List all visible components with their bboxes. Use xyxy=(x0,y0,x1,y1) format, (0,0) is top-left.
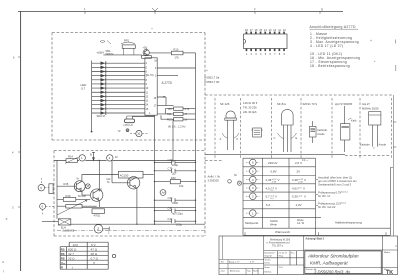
svg-text:3: 3 xyxy=(255,52,257,56)
bottom left corner marks xyxy=(2,260,4,273)
resistor R20 470 xyxy=(92,209,105,214)
svg-text:V: V xyxy=(304,178,306,182)
svg-text:C41: C41 xyxy=(168,206,173,210)
svg-text:T40: T40 xyxy=(98,188,103,192)
svg-text:6: 6 xyxy=(269,52,271,56)
component strip dashed top xyxy=(205,94,392,96)
svg-text:Gerätanschluß zum 2 und 3: Gerätanschluß zum 2 und 3 xyxy=(318,182,352,186)
svg-text:-0,3: -0,3 xyxy=(270,198,274,200)
svg-text:4: 4 xyxy=(260,52,262,56)
resonator B1 470Hz xyxy=(125,116,155,123)
svg-text:R19: R19 xyxy=(66,194,71,198)
svg-text:3300: 3300 xyxy=(172,201,178,205)
input B arrow xyxy=(92,152,95,160)
wires resistor stack to rails xyxy=(157,109,195,120)
svg-text:0,7 Ω: 0,7 Ω xyxy=(91,257,99,261)
svg-text:3 053200: 3 053200 xyxy=(208,178,220,182)
svg-text:+0,2: +0,2 xyxy=(298,196,303,198)
svg-text:+1/-0,5: +1/-0,5 xyxy=(340,203,346,205)
svg-text:11: 11 xyxy=(278,28,281,32)
svg-text:7: 7 xyxy=(274,52,276,56)
svg-text:2: 2 xyxy=(108,231,110,234)
svg-text:2µ7: 2µ7 xyxy=(172,172,177,176)
svg-text:2: 2 xyxy=(252,195,254,199)
svg-text:0,8V: 0,8V xyxy=(271,170,277,174)
svg-text:Kathode: Kathode xyxy=(317,128,327,132)
svg-text:R9: R9 xyxy=(168,107,172,111)
svg-text:K: K xyxy=(237,137,239,141)
svg-text:C: C xyxy=(274,136,276,140)
svg-text:-0,08: -0,08 xyxy=(298,181,303,183)
svg-text:11: 11 xyxy=(146,91,149,94)
title area lines xyxy=(304,250,398,268)
resistor stack labels xyxy=(167,107,190,122)
svg-text:Wag: Wag xyxy=(279,256,284,258)
svg-text:1: 1 xyxy=(246,52,248,56)
potentiometer RP1 xyxy=(121,42,135,55)
svg-text:2,6 V: 2,6 V xyxy=(295,161,302,165)
svg-text:2V: 2V xyxy=(297,170,301,174)
svg-text:11.4: 11.4 xyxy=(279,267,284,269)
svg-text:für Vbr. G2-U2: für Vbr. G2-U2 xyxy=(318,205,336,209)
package body xyxy=(244,34,288,49)
wire +5V rail xyxy=(103,54,141,56)
svg-text:Nr.: Nr. xyxy=(234,173,238,177)
relay box AC150 xyxy=(119,171,144,178)
svg-text:Aufkl. I. Nr.: Aufkl. I. Nr. xyxy=(208,175,221,179)
svg-text:8: 8 xyxy=(146,79,148,82)
svg-text:Ausg. 1.77: Ausg. 1.77 xyxy=(229,260,240,263)
svg-text:+0,3: +0,3 xyxy=(298,187,303,189)
svg-text:R15: R15 xyxy=(64,182,69,186)
svg-text:3: 3 xyxy=(12,206,14,210)
svg-text:Techn.: Techn. xyxy=(265,260,272,262)
svg-text:4µ7(10µ): 4µ7(10µ) xyxy=(172,212,183,216)
svg-text:3: 3 xyxy=(155,67,157,70)
wire bottom stub left xyxy=(42,220,58,222)
lower schematic dashed enclosure xyxy=(54,151,205,236)
dashes at circle sides xyxy=(246,163,259,214)
svg-text:C33: C33 xyxy=(168,196,173,200)
wire IC right pin y105.4 xyxy=(157,97,173,105)
package pin numbers xyxy=(245,28,286,56)
svg-text:Anschlußbelegung A277D: Anschlußbelegung A277D xyxy=(310,25,356,29)
svg-text:1: 1 xyxy=(84,7,86,11)
svg-text:4 0593,7 00: 4 0593,7 00 xyxy=(204,80,220,84)
svg-text:28 Ω: 28 Ω xyxy=(91,252,98,256)
wire bottom rail y224.2 xyxy=(71,223,205,225)
svg-text:18 - Betriebsspannung: 18 - Betriebsspannung xyxy=(310,64,350,68)
svg-text:für Vbr. Ut: für Vbr. Ut xyxy=(318,194,330,198)
svg-text:+(8)V: +(8)V xyxy=(97,51,106,55)
svg-text:4.77: 4.77 xyxy=(250,261,255,263)
svg-text:15: 15 xyxy=(259,28,262,32)
annotation block right edge xyxy=(389,168,391,236)
svg-text:10k: 10k xyxy=(179,184,184,188)
svg-text:E: E xyxy=(296,136,298,140)
svg-text:Geprüft: Geprüft xyxy=(265,255,273,258)
svg-text:Kathode: Kathode xyxy=(360,142,370,146)
svg-text:47 Ω: 47 Ω xyxy=(91,248,98,252)
handwriting mark top xyxy=(100,40,111,44)
frame top tick x255 xyxy=(254,11,256,14)
title block verticals xyxy=(264,236,383,275)
LED bus wire xyxy=(91,61,93,132)
diode SZX21 outline xyxy=(309,121,316,143)
svg-text:SC308: SC308 xyxy=(78,194,86,198)
svg-text:R40: R40 xyxy=(171,176,176,180)
svg-text:1,0V: 1,0V xyxy=(296,203,302,207)
svg-text:-0,2: -0,2 xyxy=(270,190,274,192)
wire x173 gap crossing xyxy=(172,119,174,162)
svg-text:Kontr.: Kontr. xyxy=(265,262,271,265)
frame right tick y122 xyxy=(393,121,396,123)
frame left tick y152 xyxy=(18,151,21,153)
svg-text:6: 6 xyxy=(252,161,254,165)
svg-text:A: A xyxy=(220,137,222,141)
frame left tick y57 xyxy=(18,56,21,58)
capacitor C39 row xyxy=(155,160,196,164)
resistor R19 xyxy=(63,198,76,202)
svg-text:R14: R14 xyxy=(68,155,73,159)
node lamp cross xyxy=(85,184,90,189)
leader marks to annotations xyxy=(316,180,318,206)
svg-text:+: + xyxy=(374,59,376,63)
svg-text:17: 17 xyxy=(250,28,253,32)
meter node circled M xyxy=(160,190,166,196)
IC package drawing A277D DIP-18 xyxy=(244,32,288,51)
svg-text:Bearbeitet: Bearbeitet xyxy=(265,251,275,254)
transistor T1 xyxy=(74,181,85,192)
package bottom pins xyxy=(246,49,285,52)
svg-text:Soll/Ist: Soll/Ist xyxy=(270,219,278,223)
svg-text:AC150: AC150 xyxy=(120,174,129,178)
svg-text:V: V xyxy=(275,186,277,190)
strip labels xyxy=(220,101,387,162)
node circle right of table xyxy=(112,254,115,257)
svg-text:13 —: 13 — xyxy=(302,158,309,162)
oscillator node circled 4 xyxy=(130,131,148,137)
svg-text:Werte: Werte xyxy=(270,222,277,226)
wire T2 emitter down xyxy=(98,201,100,208)
title block outer xyxy=(219,236,398,275)
package notch pin1 mark xyxy=(244,39,246,43)
svg-text:6: 6 xyxy=(13,56,15,60)
svg-text:Anode: Anode xyxy=(317,132,325,136)
svg-text:R11: R11 xyxy=(167,112,172,116)
capacitor C41 row xyxy=(155,209,196,213)
frame right partial border xyxy=(392,95,394,236)
right edge stray marks xyxy=(395,40,397,72)
svg-text:100µ: 100µ xyxy=(172,163,178,167)
transistor T2 SC308 xyxy=(91,189,103,201)
svg-text:14: 14 xyxy=(264,28,267,32)
wire R8 to right rail xyxy=(183,52,196,54)
junction dots xyxy=(99,160,197,225)
svg-text:B1: B1 xyxy=(221,261,224,263)
svg-text:2: 2 xyxy=(155,75,157,78)
capacitor C43 row xyxy=(155,219,196,223)
svg-text:Kru: Kru xyxy=(291,251,295,254)
svg-text:TK: TK xyxy=(386,270,393,276)
node small plus circle xyxy=(126,129,129,132)
svg-text:KMR, Aufbaugerät: KMR, Aufbaugerät xyxy=(310,261,348,266)
svg-text:+5V: +5V xyxy=(143,46,148,50)
svg-text:2: 2 xyxy=(254,7,256,11)
shared dashed vertical x205 xyxy=(204,33,206,236)
wire IC right pin y68 xyxy=(157,67,195,69)
package top pins xyxy=(246,32,285,34)
svg-text:13: 13 xyxy=(269,28,272,32)
svg-text:16: 16 xyxy=(255,28,258,32)
resistor R9 4,7k xyxy=(174,107,183,110)
frame top tick x155 xyxy=(152,8,158,14)
svg-text:C43: C43 xyxy=(168,217,173,221)
svg-text:R6: R6 xyxy=(61,252,65,256)
annotation block xyxy=(318,175,362,224)
svg-text:13: 13 xyxy=(146,100,149,103)
wire VT1 to R8 xyxy=(149,52,171,54)
table header box xyxy=(69,242,108,247)
upper schematic dashed enclosure xyxy=(52,33,205,140)
svg-text:10: 10 xyxy=(283,28,286,32)
svg-text:(D-70): (D-70) xyxy=(146,73,153,77)
frame top border xyxy=(18,10,343,12)
voltage table xyxy=(228,158,394,235)
terminal circled 6 xyxy=(40,203,54,215)
wire trimmer row xyxy=(57,205,97,207)
svg-text:1: 1 xyxy=(149,112,151,115)
lower schematic texts xyxy=(40,153,184,235)
upper schematic small texts xyxy=(81,39,220,134)
wire y207.3 xyxy=(82,206,196,208)
svg-text:≈470 Hz: ≈470 Hz xyxy=(123,123,134,127)
svg-text:17k: 17k xyxy=(175,56,180,60)
scan specks xyxy=(6,28,397,247)
svg-text:3: 3 xyxy=(252,186,254,190)
svg-text:gen von 2780V 4 zusammen am: gen von 2780V 4 zusammen am xyxy=(318,179,357,183)
strip cell separators dashed xyxy=(215,98,392,158)
svg-text:4: 4 xyxy=(12,151,14,155)
op-amp U1 A277D IC body xyxy=(145,58,157,115)
terminal circled 3 xyxy=(107,155,113,161)
svg-text:Prüfspannung 13,5: Prüfspannung 13,5 xyxy=(318,202,341,206)
svg-text:5: 5 xyxy=(265,52,267,56)
wire T1 collector up xyxy=(82,175,119,182)
svg-text:4: 4 xyxy=(146,62,148,65)
svg-text:10: 10 xyxy=(146,87,149,90)
title block texts xyxy=(221,237,394,275)
svg-text:15: 15 xyxy=(146,108,149,111)
svg-text:-0,08: -0,08 xyxy=(272,181,277,183)
svg-text:C39: C39 xyxy=(168,158,173,162)
IC pin numbers right column xyxy=(154,60,158,108)
svg-text:12: 12 xyxy=(273,28,276,32)
wire right rail x195.5 xyxy=(195,53,197,224)
resistor R8 1k xyxy=(171,51,183,55)
company box lines xyxy=(264,251,304,275)
svg-text:4: 4 xyxy=(252,178,254,182)
capacitor C33 row xyxy=(155,198,196,202)
wire stub table to title block xyxy=(245,232,386,236)
svg-text:V: V xyxy=(303,186,305,190)
svg-text:241 30 3µ6: 241 30 3µ6 xyxy=(243,110,257,114)
svg-text:Gle 27: Gle 27 xyxy=(362,102,370,106)
lower schematic xyxy=(38,152,205,233)
terminal circled 1 xyxy=(79,155,85,161)
svg-text:3 D556/00 Rp/3, dx: 3 D556/00 Rp/3, dx xyxy=(314,269,351,274)
svg-text:Meßpunkt: Meßpunkt xyxy=(245,221,259,225)
svg-text:V: V xyxy=(304,195,306,199)
pin legend text block xyxy=(310,25,377,68)
svg-text:Akkordeur Stromlaufplan: Akkordeur Stromlaufplan xyxy=(307,254,359,259)
trimmer R18 xyxy=(57,200,87,215)
svg-text:SF 8xx: SF 8xx xyxy=(277,102,287,106)
node dot y97 xyxy=(163,96,165,98)
svg-text:6: 6 xyxy=(42,205,44,209)
wire rail to T1 base xyxy=(57,185,76,187)
wire R19 row xyxy=(57,198,90,200)
svg-text:|: | xyxy=(3,269,4,273)
title block xyxy=(219,236,398,275)
transistor VT1 top xyxy=(143,49,149,55)
svg-text:9: 9 xyxy=(284,52,286,56)
frame right tick y147 xyxy=(393,146,396,148)
wire IC pin1 drop x154.5 xyxy=(154,115,156,224)
wire T1 emitter to T2 base xyxy=(82,191,90,195)
frame left tick y207 xyxy=(18,206,21,208)
svg-text:9+: 9+ xyxy=(77,177,80,180)
left inner rail wire xyxy=(56,161,58,219)
svg-text:1: 1 xyxy=(252,211,254,215)
svg-text:Werkleitung W 15/6: Werkleitung W 15/6 xyxy=(270,239,291,242)
node Aufkl circle xyxy=(228,180,232,184)
resistor R14 on top rail xyxy=(65,157,79,164)
component strip baseline xyxy=(205,153,345,155)
svg-text:Halbbetriebsspannung: Halbbetriebsspannung xyxy=(335,220,362,224)
frame top tick x85 xyxy=(84,11,86,14)
resistor R10 47 xyxy=(174,112,183,115)
svg-text:5: 5 xyxy=(146,66,148,69)
title box emphasis xyxy=(305,251,382,274)
capacitor electrolytic outline xyxy=(369,112,381,147)
wire IC pin18 drop xyxy=(145,48,147,58)
svg-text:0,7: 0,7 xyxy=(81,87,86,91)
svg-text:Änderung: Änderung xyxy=(230,270,240,273)
node Nr cross circle xyxy=(237,181,241,185)
svg-text:Ta: Ta xyxy=(107,181,110,184)
wire dash-dot inner rail xyxy=(57,230,205,232)
frame left border xyxy=(20,12,22,272)
svg-text:R8: R8 xyxy=(61,257,65,261)
wire x112 drop xyxy=(111,161,113,183)
svg-text:o. Fernmeldewerk und: o. Fernmeldewerk und xyxy=(267,242,291,245)
svg-text:2: 2 xyxy=(251,52,253,56)
bottom-left resistor table xyxy=(60,242,116,269)
svg-text:TGL 007 a: TGL 007 a xyxy=(272,246,283,248)
svg-text:5P30V: 5P30V xyxy=(106,52,114,56)
svg-text:Anschluß offen bzw. über (1): Anschluß offen bzw. über (1) xyxy=(318,175,352,179)
svg-text:17: 17 xyxy=(154,104,157,107)
svg-text:4,7k: 4,7k xyxy=(184,107,190,111)
wire top rail y160.5 xyxy=(54,160,196,162)
svg-text:Prüfspannung 6,75: Prüfspannung 6,75 xyxy=(318,190,341,194)
svg-text:4 - LED 17 (LD 27): 4 - LED 17 (LD 27) xyxy=(310,44,343,48)
svg-text:4: 4 xyxy=(2,260,4,264)
svg-text:Anode: Anode xyxy=(379,142,387,146)
svg-text:21.10.77: 21.10.77 xyxy=(279,252,288,254)
svg-text:(4) 0,6…1,2 Hz: (4) 0,6…1,2 Hz xyxy=(168,124,186,128)
svg-text:470Ω: 470Ω xyxy=(94,214,101,218)
svg-text:Werkst.: Werkst. xyxy=(265,271,273,274)
frame top tick x320 xyxy=(320,8,322,14)
frame tiny numbers xyxy=(12,7,256,210)
svg-text:12: 12 xyxy=(146,95,149,98)
component outline strip xyxy=(215,98,392,158)
svg-text:R10: R10 xyxy=(174,47,179,51)
svg-text:A 277D: A 277D xyxy=(162,81,173,85)
svg-text:5: 5 xyxy=(252,169,254,173)
wire T3 collector right xyxy=(143,174,154,176)
wire T3 emitter down xyxy=(136,187,138,224)
svg-text:Kath.: Kath. xyxy=(351,119,357,123)
svg-text:Zust: Zust xyxy=(221,270,226,273)
svg-text:14: 14 xyxy=(146,104,149,107)
capacitor C79 row xyxy=(155,169,196,173)
svg-text:SZX21 70 S: SZX21 70 S xyxy=(303,102,318,106)
svg-text:t: t xyxy=(72,266,73,270)
svg-text:12: 12 xyxy=(115,155,118,159)
svg-text:42 7: 42 7 xyxy=(68,252,74,256)
LED row wires with diodes V1-V13 xyxy=(92,61,145,115)
left section grid xyxy=(219,236,264,275)
svg-text:5,2…: 5,2… xyxy=(266,203,273,207)
wire IC right pin y75.7 xyxy=(157,75,178,77)
svg-text:R5: R5 xyxy=(61,248,65,252)
measure point circles xyxy=(250,159,257,166)
voltage table texts xyxy=(208,161,363,234)
svg-text:2µ4 SY360/05: 2µ4 SY360/05 xyxy=(335,102,353,106)
transistor VT SF8xx outline xyxy=(278,109,297,152)
svg-text:8: 8 xyxy=(279,52,281,56)
resistor R11 1k xyxy=(174,118,183,121)
svg-text:Norm: Norm xyxy=(265,266,271,269)
resistor R13 vertical on box edge xyxy=(49,184,53,194)
svg-text:16: 16 xyxy=(154,97,157,100)
transistor T3 xyxy=(127,177,139,189)
capacitor elko C36 xyxy=(58,219,71,225)
svg-text:+0,5/-0,1: +0,5/-0,1 xyxy=(340,191,348,193)
terminal circled 2 xyxy=(94,225,109,234)
terminal circled 5 xyxy=(38,178,54,191)
svg-text:Wärmesich.: Wärmesich. xyxy=(275,230,291,234)
svg-text:SF 126: SF 126 xyxy=(220,102,230,106)
svg-text:RP1: RP1 xyxy=(124,39,130,43)
svg-text:140-3c 30 6: 140-3c 30 6 xyxy=(243,101,258,105)
svg-text:230mV: 230mV xyxy=(268,161,278,165)
svg-text:18: 18 xyxy=(245,28,248,32)
svg-text:V: V xyxy=(278,178,280,182)
svg-text:Maßst.: Maßst. xyxy=(384,251,391,254)
wire T3 base xyxy=(112,182,130,184)
svg-text:12V: 12V xyxy=(73,243,79,247)
LED V SF126 outline xyxy=(222,111,239,150)
table grid xyxy=(243,158,390,235)
table body grid xyxy=(60,247,108,270)
svg-text:32 Ω: 32 Ω xyxy=(68,257,75,261)
svg-text:180µ: 180µ xyxy=(176,222,182,226)
svg-text:SDA M…: SDA M… xyxy=(97,114,108,118)
